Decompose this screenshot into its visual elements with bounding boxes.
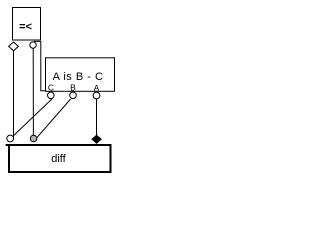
wire: vertical from circle port of =< block down to gray node [32,48,34,137]
white variable node above diff [7,135,14,142]
gray variable node above diff [30,135,37,142]
svg-text:B: B [70,83,76,93]
svg-text:A: A [94,83,100,93]
port C circle [48,92,55,99]
wire: diagonal from port C down-left to white node [12,99,52,137]
black diamond node above diff [92,135,101,143]
wire: vertical from diamond port of =< block down to white node [13,50,15,138]
svg-text:C: C [48,83,54,93]
circle port under =< block [30,42,36,48]
svg-text:=<: =< [19,21,32,33]
wire: elbow from circle port of =< block to port C of A is B - C box [34,41,49,90]
port A circle [93,92,100,99]
diff box [6,145,111,172]
svg-text:diff: diff [51,153,66,165]
wire: vertical from port A down to black diamond node [96,99,98,138]
svg-text:A is B - C: A is B - C [53,71,104,83]
port B circle [70,92,77,99]
wire: diagonal from port B down-left to gray node [37,99,71,138]
constraint block A is B - C [46,58,115,93]
constraint block =< [13,8,41,41]
diamond port under =< block [9,42,19,51]
